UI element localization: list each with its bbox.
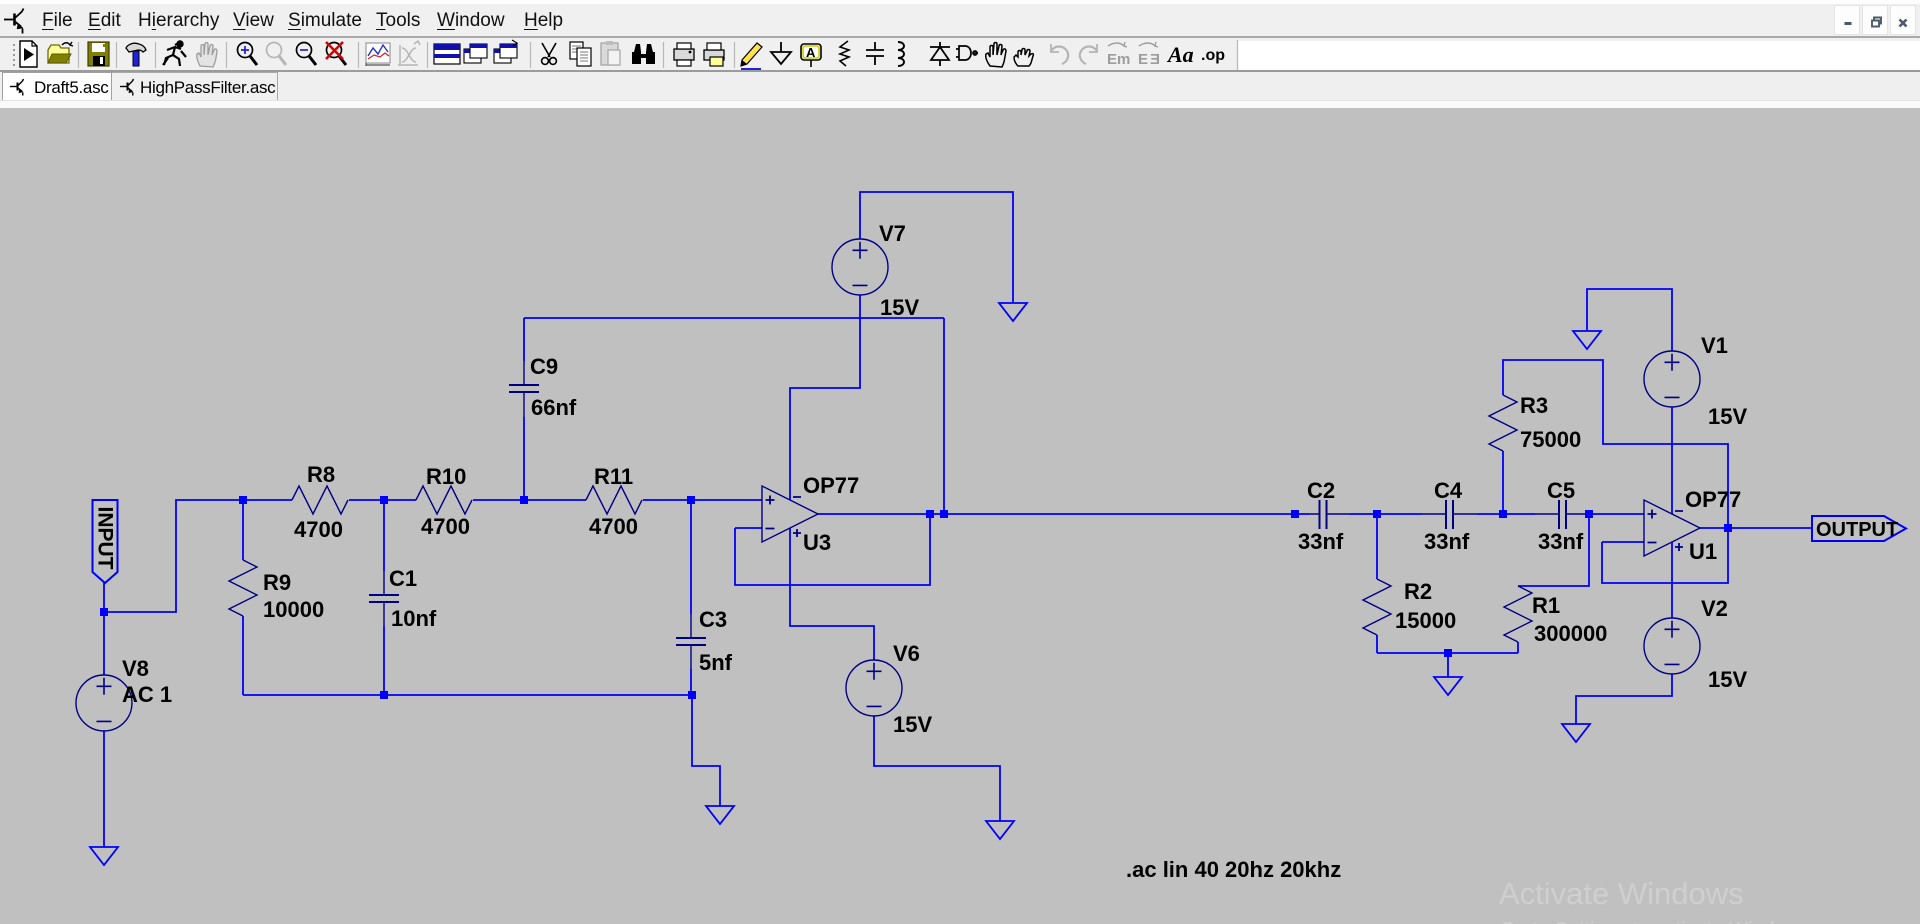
svg-text:R11: R11: [594, 464, 633, 489]
svg-text:V1: V1: [1701, 333, 1728, 358]
svg-text:E: E: [1107, 51, 1117, 68]
svg-text:Go to Settings to activate Win: Go to Settings to activate Windows.: [1500, 919, 1816, 924]
svg-text:66nf: 66nf: [531, 395, 577, 420]
svg-text:A: A: [806, 45, 816, 60]
svg-text:4700: 4700: [589, 514, 638, 539]
svg-text:33nf: 33nf: [1538, 529, 1584, 554]
svg-text:Aa: Aa: [1166, 42, 1194, 67]
svg-text:m: m: [1117, 51, 1130, 68]
svg-text:U3: U3: [803, 530, 831, 555]
svg-text:10nf: 10nf: [391, 606, 437, 631]
svg-text:OUTPUT: OUTPUT: [1816, 519, 1898, 541]
svg-text:C5: C5: [1547, 478, 1575, 503]
svg-text:15000: 15000: [1395, 608, 1456, 633]
svg-text:C4: C4: [1434, 478, 1463, 503]
svg-text:15V: 15V: [880, 295, 919, 320]
svg-text:R9: R9: [263, 570, 291, 595]
svg-text:10000: 10000: [263, 597, 324, 622]
svg-text:C2: C2: [1307, 478, 1335, 503]
svg-text:R3: R3: [1520, 393, 1548, 418]
svg-text:33nf: 33nf: [1424, 529, 1470, 554]
svg-text:AC 1: AC 1: [122, 682, 172, 707]
svg-text:4700: 4700: [421, 514, 470, 539]
svg-text:C9: C9: [530, 354, 558, 379]
svg-text:15V: 15V: [1708, 667, 1747, 692]
svg-text:5nf: 5nf: [699, 650, 733, 675]
svg-text:C3: C3: [699, 607, 727, 632]
svg-text:R10: R10: [426, 464, 466, 489]
svg-text:V2: V2: [1701, 596, 1728, 621]
svg-text:V6: V6: [893, 641, 920, 666]
svg-text:R1: R1: [1532, 593, 1560, 618]
svg-text:75000: 75000: [1520, 427, 1581, 452]
svg-text:INPUT: INPUT: [94, 507, 117, 570]
svg-text:U1: U1: [1689, 539, 1717, 564]
svg-text:.ac lin 40 20hz 20khz: .ac lin 40 20hz 20khz: [1126, 857, 1341, 882]
svg-text:.op: .op: [1201, 47, 1225, 64]
svg-text:Activate Windows: Activate Windows: [1499, 876, 1744, 911]
svg-text:R2: R2: [1404, 579, 1432, 604]
svg-text:OP77: OP77: [803, 473, 859, 498]
svg-text:V8: V8: [122, 656, 149, 681]
svg-text:15V: 15V: [893, 712, 932, 737]
svg-text:Ǝ: Ǝ: [1150, 51, 1160, 68]
svg-text:E: E: [1138, 51, 1148, 68]
svg-text:300000: 300000: [1534, 621, 1607, 646]
svg-text:V7: V7: [879, 221, 906, 246]
svg-text:4700: 4700: [294, 517, 343, 542]
svg-text:33nf: 33nf: [1298, 529, 1344, 554]
svg-text:OP77: OP77: [1685, 487, 1741, 512]
svg-text:C1: C1: [389, 566, 417, 591]
svg-text:15V: 15V: [1708, 404, 1747, 429]
svg-text:R8: R8: [307, 462, 335, 487]
